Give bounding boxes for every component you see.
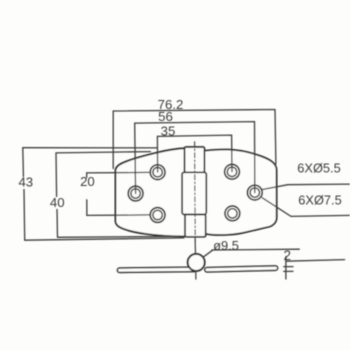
dimension 40 line upper xyxy=(55,153,58,197)
svg-text:20: 20 xyxy=(80,174,95,189)
hole right-top outer xyxy=(225,164,240,179)
side view center line upper xyxy=(194,239,196,254)
hole right-mid outer xyxy=(247,185,262,200)
dimension 43 top extension xyxy=(23,147,157,149)
hole right-bottom outer xyxy=(225,206,240,221)
hole left-top outer xyxy=(150,165,165,180)
hole left-mid inner xyxy=(131,189,140,198)
dimension 20 line upper xyxy=(86,173,88,177)
barrel knuckle middle xyxy=(182,172,206,214)
dimension 2 vertical line xyxy=(285,257,287,280)
dimension 20 line lower xyxy=(86,200,88,216)
hole left-bottom outer xyxy=(150,208,165,223)
barrel dashed center line xyxy=(194,142,197,241)
leader 6x7.5 xyxy=(262,198,349,217)
side view center line lower xyxy=(195,271,197,279)
dimension 40 top extension xyxy=(56,152,151,153)
hole right-bottom inner xyxy=(228,209,237,218)
side view barrel circle xyxy=(188,254,205,271)
dimension 2 bottom extension xyxy=(284,270,293,272)
hole right-top inner xyxy=(227,167,236,176)
hole right-mid inner xyxy=(250,188,259,197)
dimension 20 bottom extension xyxy=(87,214,151,217)
dimension 35 line xyxy=(157,135,232,172)
hinge left leaf outline xyxy=(115,148,184,236)
svg-text:35: 35 xyxy=(161,123,176,138)
side view left leaf bar xyxy=(117,267,196,272)
hinge right leaf outline xyxy=(205,149,276,235)
dimension 40 bottom extension xyxy=(58,235,179,238)
barrel knuckle bottom xyxy=(185,215,206,237)
dimension 2 line xyxy=(286,260,344,262)
hole left-top inner xyxy=(153,168,162,177)
dimension 43 bottom extension xyxy=(25,238,184,240)
leader dia 9.5 underline xyxy=(212,248,299,251)
dimension 56 line xyxy=(135,122,255,194)
leader 6x5.5 xyxy=(262,184,350,190)
dimension 43 line upper xyxy=(22,148,25,177)
svg-text:56: 56 xyxy=(158,109,173,124)
svg-text:6XØ5.5: 6XØ5.5 xyxy=(297,160,340,175)
svg-text:6XØ7.5: 6XØ7.5 xyxy=(298,193,341,208)
dimension 2 top extension xyxy=(284,266,293,268)
barrel knuckle top xyxy=(185,147,205,172)
svg-text:43: 43 xyxy=(18,175,33,190)
leader dia 9.5 xyxy=(204,250,213,257)
dimension 20 top extension xyxy=(87,171,151,174)
side view right leaf bar xyxy=(205,266,278,272)
svg-text:40: 40 xyxy=(50,195,65,210)
dimension 40 line lower xyxy=(56,210,59,238)
dimension 76.2 line xyxy=(113,110,276,169)
hole left-mid outer xyxy=(128,186,143,201)
hole left-bottom inner xyxy=(153,210,162,219)
dimension 43 line lower xyxy=(23,190,26,241)
